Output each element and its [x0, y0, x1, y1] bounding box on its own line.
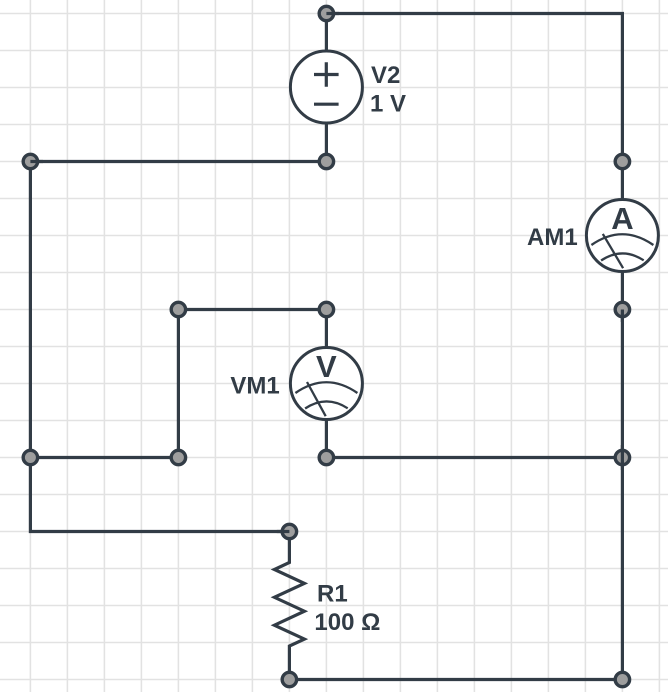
wire AM1 bottom lead — [621, 271, 624, 310]
wire mid column up — [178, 310, 326, 458]
wire stub over node left-top — [30, 160, 43, 163]
svg-text:V2: V2 — [371, 62, 400, 89]
wire V2 minus to left rail and down — [30, 162, 326, 458]
node top — [319, 6, 333, 20]
wire bottom-left row to mid column — [30, 456, 178, 459]
node R1 top — [282, 524, 296, 538]
node AM1 bottom — [615, 302, 629, 316]
voltmeter VM1 — [290, 348, 362, 420]
svg-text:100 Ω: 100 Ω — [314, 609, 380, 636]
wire stub over node AM1-bottom — [621, 310, 624, 323]
wire V2 bottom lead — [325, 123, 328, 162]
node VM1 top — [319, 302, 333, 316]
wire VM1 bottom to right rail — [326, 456, 622, 459]
node right bottom — [615, 672, 629, 686]
svg-text:AM1: AM1 — [527, 224, 578, 251]
svg-text:A: A — [611, 201, 633, 236]
svg-text:V: V — [316, 349, 337, 384]
wire AM1 top lead — [621, 162, 624, 201]
svg-text:VM1: VM1 — [230, 373, 279, 400]
node VM1 bottom — [319, 450, 333, 464]
node right mid — [615, 450, 629, 464]
node mid bottom — [171, 450, 185, 464]
wire stub over node R1-top — [277, 530, 290, 533]
node R1 bottom — [282, 672, 296, 686]
ammeter AM1 — [586, 200, 658, 272]
node left bottom — [23, 450, 37, 464]
wire bottom row — [289, 678, 622, 681]
svg-text:1 V: 1 V — [370, 90, 406, 117]
wire through node right-mid — [621, 445, 624, 470]
voltage source V2 — [290, 51, 362, 123]
svg-text:R1: R1 — [317, 580, 348, 607]
node AM1 top — [615, 154, 629, 168]
wire V2 top lead — [325, 14, 328, 52]
wire right rail down — [621, 310, 624, 680]
wire left rail to R1 top — [30, 458, 289, 532]
node V2 minus — [319, 154, 333, 168]
wire stub over node top — [326, 12, 339, 15]
wire top: node T to top-right corner down to AM1 top node — [326, 14, 622, 162]
(crossing wire ends drawn over node dots, as in source) — [30, 14, 622, 532]
wire VM1 bottom lead — [325, 419, 328, 458]
node mid top — [171, 302, 185, 316]
node left top — [23, 154, 37, 168]
wire VM1 top lead — [325, 310, 328, 349]
resistor R1 — [274, 532, 304, 680]
